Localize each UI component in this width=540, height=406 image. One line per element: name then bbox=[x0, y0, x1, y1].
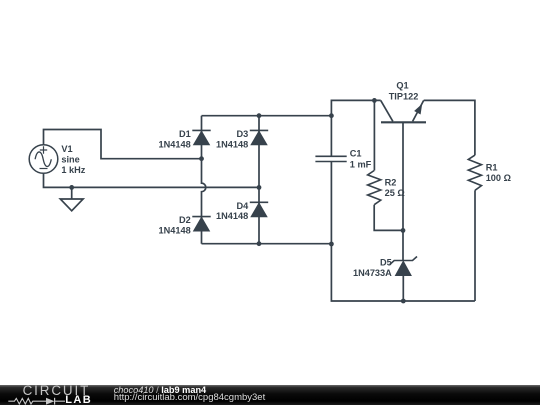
CircuitLab logo schematic glyph bbox=[0, 396, 70, 406]
svg-text:D5: D5 bbox=[380, 257, 392, 267]
transistor Q1 bbox=[381, 100, 426, 260]
D5 labels bbox=[353, 257, 392, 278]
svg-text:100 Ω: 100 Ω bbox=[486, 173, 511, 183]
footer url text bbox=[114, 392, 266, 403]
wire bridge left branch with hop over mid rail bbox=[202, 116, 206, 244]
ground symbol bbox=[60, 199, 83, 211]
D2 labels bbox=[159, 215, 191, 236]
C1 lower lead, left rail and bottom rail wire bbox=[331, 162, 475, 301]
footer title text bbox=[114, 385, 206, 395]
R1 bottom lead bbox=[474, 190, 476, 301]
footer bar bbox=[0, 385, 540, 405]
svg-text:D2: D2 bbox=[179, 215, 191, 225]
wire bridge right branch bbox=[258, 116, 260, 244]
svg-text:1N4148: 1N4148 bbox=[159, 226, 191, 236]
resistor R1 bbox=[468, 155, 481, 190]
R1 labels bbox=[486, 163, 511, 184]
svg-text:1N4148: 1N4148 bbox=[159, 139, 191, 149]
node R2 base junction bbox=[401, 228, 406, 233]
Q1 labels bbox=[389, 81, 419, 102]
node bridge left AC input bbox=[199, 156, 204, 161]
svg-text:R2: R2 bbox=[385, 177, 397, 187]
ground stub wire bbox=[71, 187, 73, 199]
diode D1 bbox=[192, 130, 210, 144]
svg-text:1 mF: 1 mF bbox=[350, 160, 372, 170]
svg-text:1 kHz: 1 kHz bbox=[61, 165, 85, 175]
D5 lower lead bbox=[402, 276, 404, 302]
svg-text:D3: D3 bbox=[236, 129, 248, 139]
diode D3 bbox=[250, 130, 268, 144]
capacitor C1 upper lead bbox=[330, 116, 332, 156]
V1 labels bbox=[61, 144, 85, 175]
R2 labels bbox=[385, 177, 405, 198]
D1 labels bbox=[159, 129, 191, 150]
wire V1 bottom to mid rail across to bridge right branch bbox=[44, 174, 260, 188]
svg-text:Q1: Q1 bbox=[396, 81, 408, 91]
R2 bottom lead to base node bbox=[374, 205, 403, 231]
D4 labels bbox=[216, 201, 249, 221]
wire bridge top bbox=[202, 115, 332, 117]
svg-text:1N4148: 1N4148 bbox=[216, 211, 248, 221]
CircuitLab logo wordmark bbox=[23, 383, 91, 398]
svg-text:C1: C1 bbox=[350, 148, 362, 158]
voltage source V1 bbox=[29, 145, 58, 174]
capacitor C1 bbox=[315, 156, 346, 161]
wire V1 top lead to bridge left input bbox=[44, 130, 202, 159]
D3 labels bbox=[216, 129, 248, 150]
svg-text:R1: R1 bbox=[486, 163, 498, 173]
wire bridge bottom bbox=[202, 243, 332, 245]
diode D2 bbox=[192, 217, 210, 231]
resistor R2 top lead bbox=[373, 100, 375, 170]
node left rail bottom junction bbox=[329, 242, 334, 247]
svg-text:1N4733A: 1N4733A bbox=[353, 268, 392, 278]
node bridge right AC input bbox=[257, 185, 262, 190]
C1 labels bbox=[350, 148, 372, 169]
resistor R2 bbox=[368, 171, 381, 205]
svg-text:D1: D1 bbox=[179, 129, 191, 139]
node D5 anode bottom rail bbox=[401, 299, 406, 304]
svg-text:1N4148: 1N4148 bbox=[216, 139, 248, 149]
zener diode D5 bbox=[390, 257, 417, 276]
svg-text:TIP122: TIP122 bbox=[389, 91, 419, 101]
wire top rail left (bridge to collector) bbox=[331, 100, 380, 115]
node V+ rail top bbox=[329, 113, 334, 118]
node bridge bottom D4 bbox=[257, 241, 262, 246]
svg-text:D4: D4 bbox=[236, 201, 249, 211]
svg-text:sine: sine bbox=[61, 154, 79, 164]
svg-text:25 Ω: 25 Ω bbox=[385, 188, 405, 198]
wire top rail right (emitter to R1) and R1 top lead bbox=[424, 100, 475, 155]
diode D4 bbox=[250, 202, 268, 216]
node R2 top bbox=[372, 98, 377, 103]
svg-text:V1: V1 bbox=[61, 144, 72, 154]
node bridge top D3 bbox=[257, 113, 262, 118]
node ground junction bbox=[69, 185, 74, 190]
